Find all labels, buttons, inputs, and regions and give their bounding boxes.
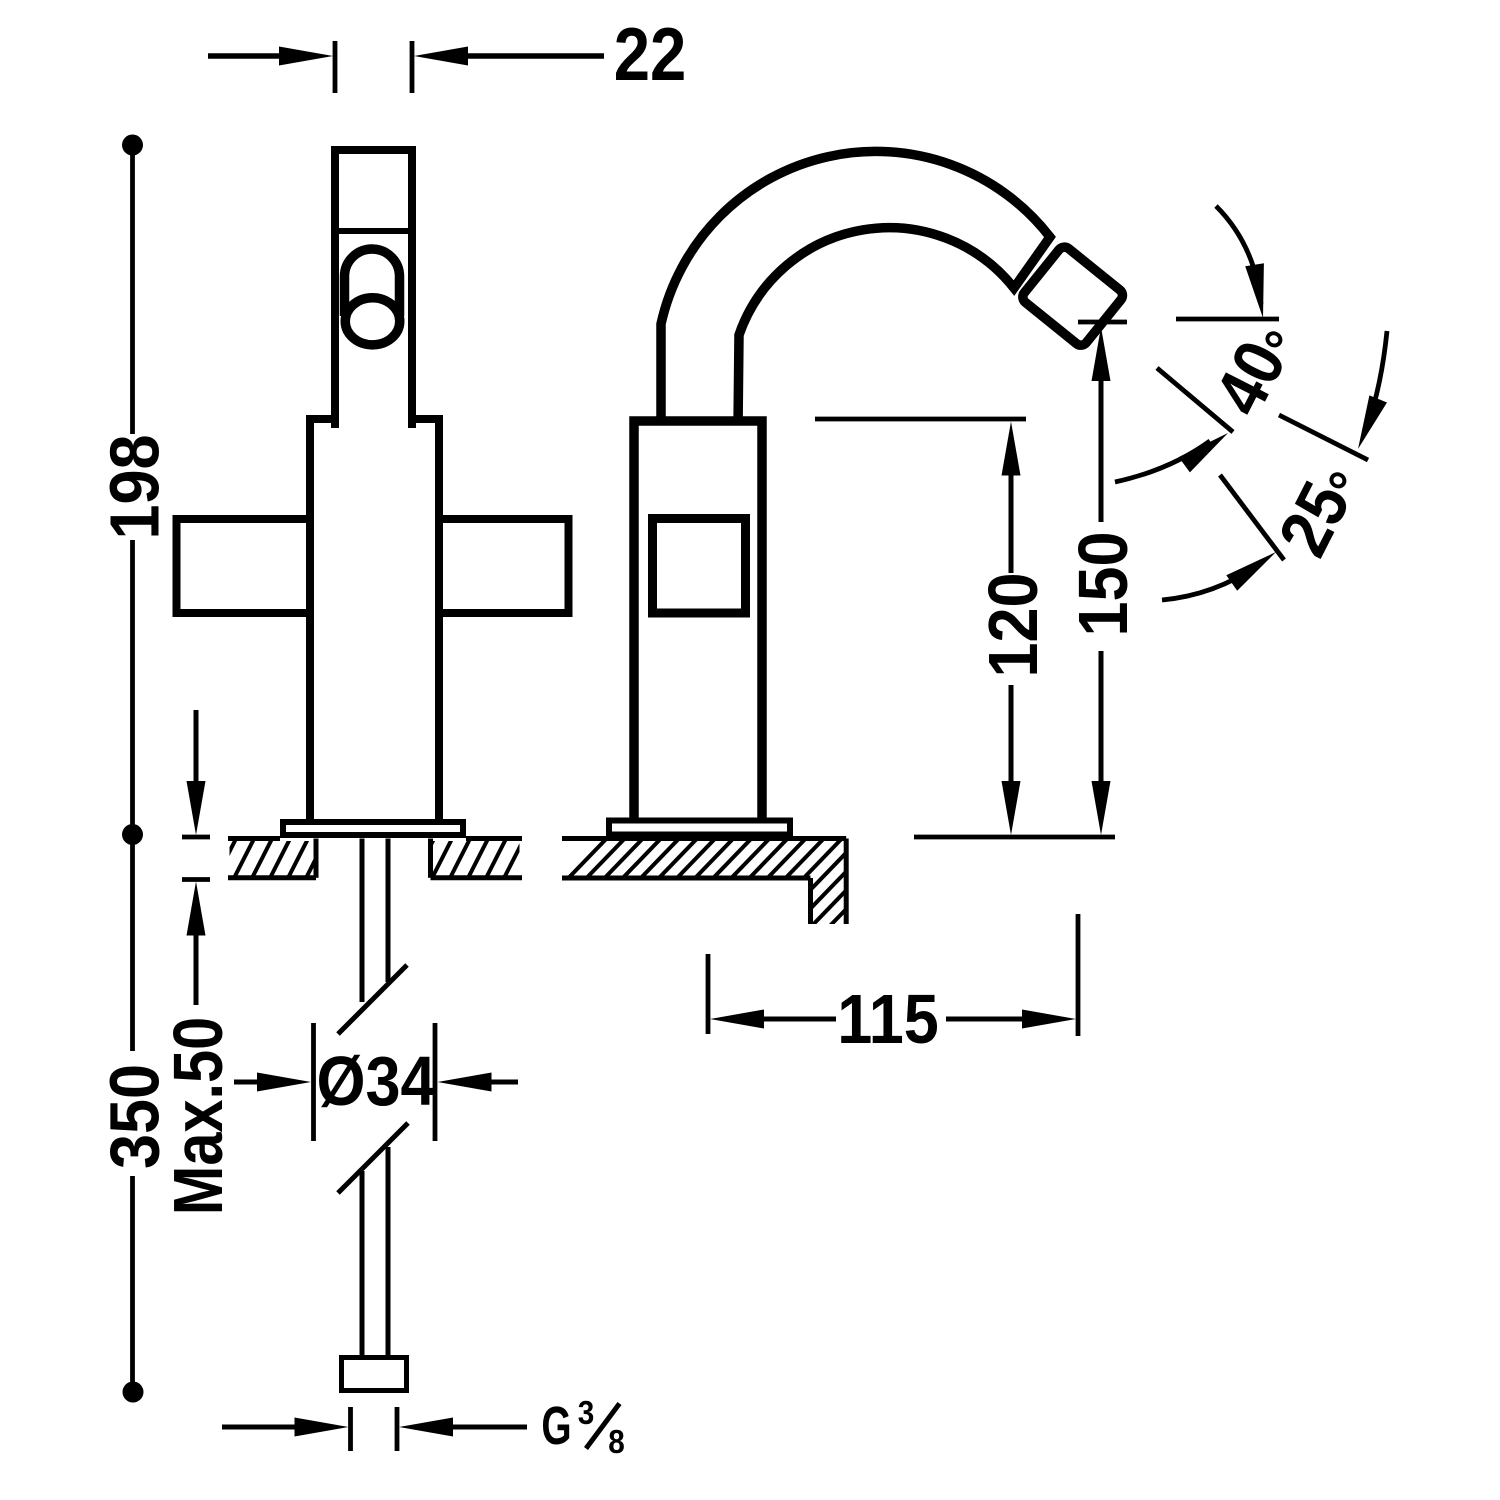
side view: base plate [609,821,790,835]
svg-text:120: 120 [975,572,1053,677]
front view: handle knob capsule [345,249,400,316]
front view: connection nut [342,1358,407,1391]
front view: top spout column [335,150,412,428]
side view: body window detail [653,519,746,614]
front view: cross handle arm [177,519,569,613]
dimension 198 (height) [122,135,143,156]
side view: curved spout tube [661,151,1050,428]
dimension diameter 34 [311,1023,316,1141]
front view: countertop surface line [228,836,280,841]
svg-text:115: 115 [837,981,939,1059]
svg-text:G: G [541,1395,571,1456]
svg-text:8: 8 [608,1424,625,1461]
side view: countertop outline [562,836,846,841]
svg-text:198: 198 [96,434,174,539]
front view: counter hole edges [314,839,319,878]
front view: spout divider line [332,228,415,234]
front view: base plate [283,822,463,835]
dimension 150 (spout height) [1078,320,1127,325]
front view: tube break marks [338,965,407,1034]
dimension 350 (supply length) [130,835,135,1052]
svg-text:3: 3 [578,1395,595,1432]
front view: handle knob ellipse [345,298,400,345]
svg-text:Ø34: Ø34 [316,1043,435,1121]
svg-text:150: 150 [1065,531,1143,636]
side view: aerator nozzle [1020,244,1125,348]
svg-text:22: 22 [614,12,687,96]
dimension 120 (body height) [815,417,1026,422]
front view: faucet body column [310,419,439,832]
dimension G 3/8 (thread) [348,1407,353,1451]
dimension 115 (spout reach) [706,954,711,1034]
svg-text:Max.50: Max.50 [158,1017,237,1215]
front view: countertop bottom edges [228,875,316,880]
front view: supply shank tube [360,839,365,1003]
dimension 40 degrees [1176,317,1279,322]
side view: faucet body column [634,421,762,832]
dimension Max.50 (counter thickness) [182,835,210,840]
dimension 22 (spout width) [333,41,338,93]
dimension 25 degrees [1279,415,1368,460]
